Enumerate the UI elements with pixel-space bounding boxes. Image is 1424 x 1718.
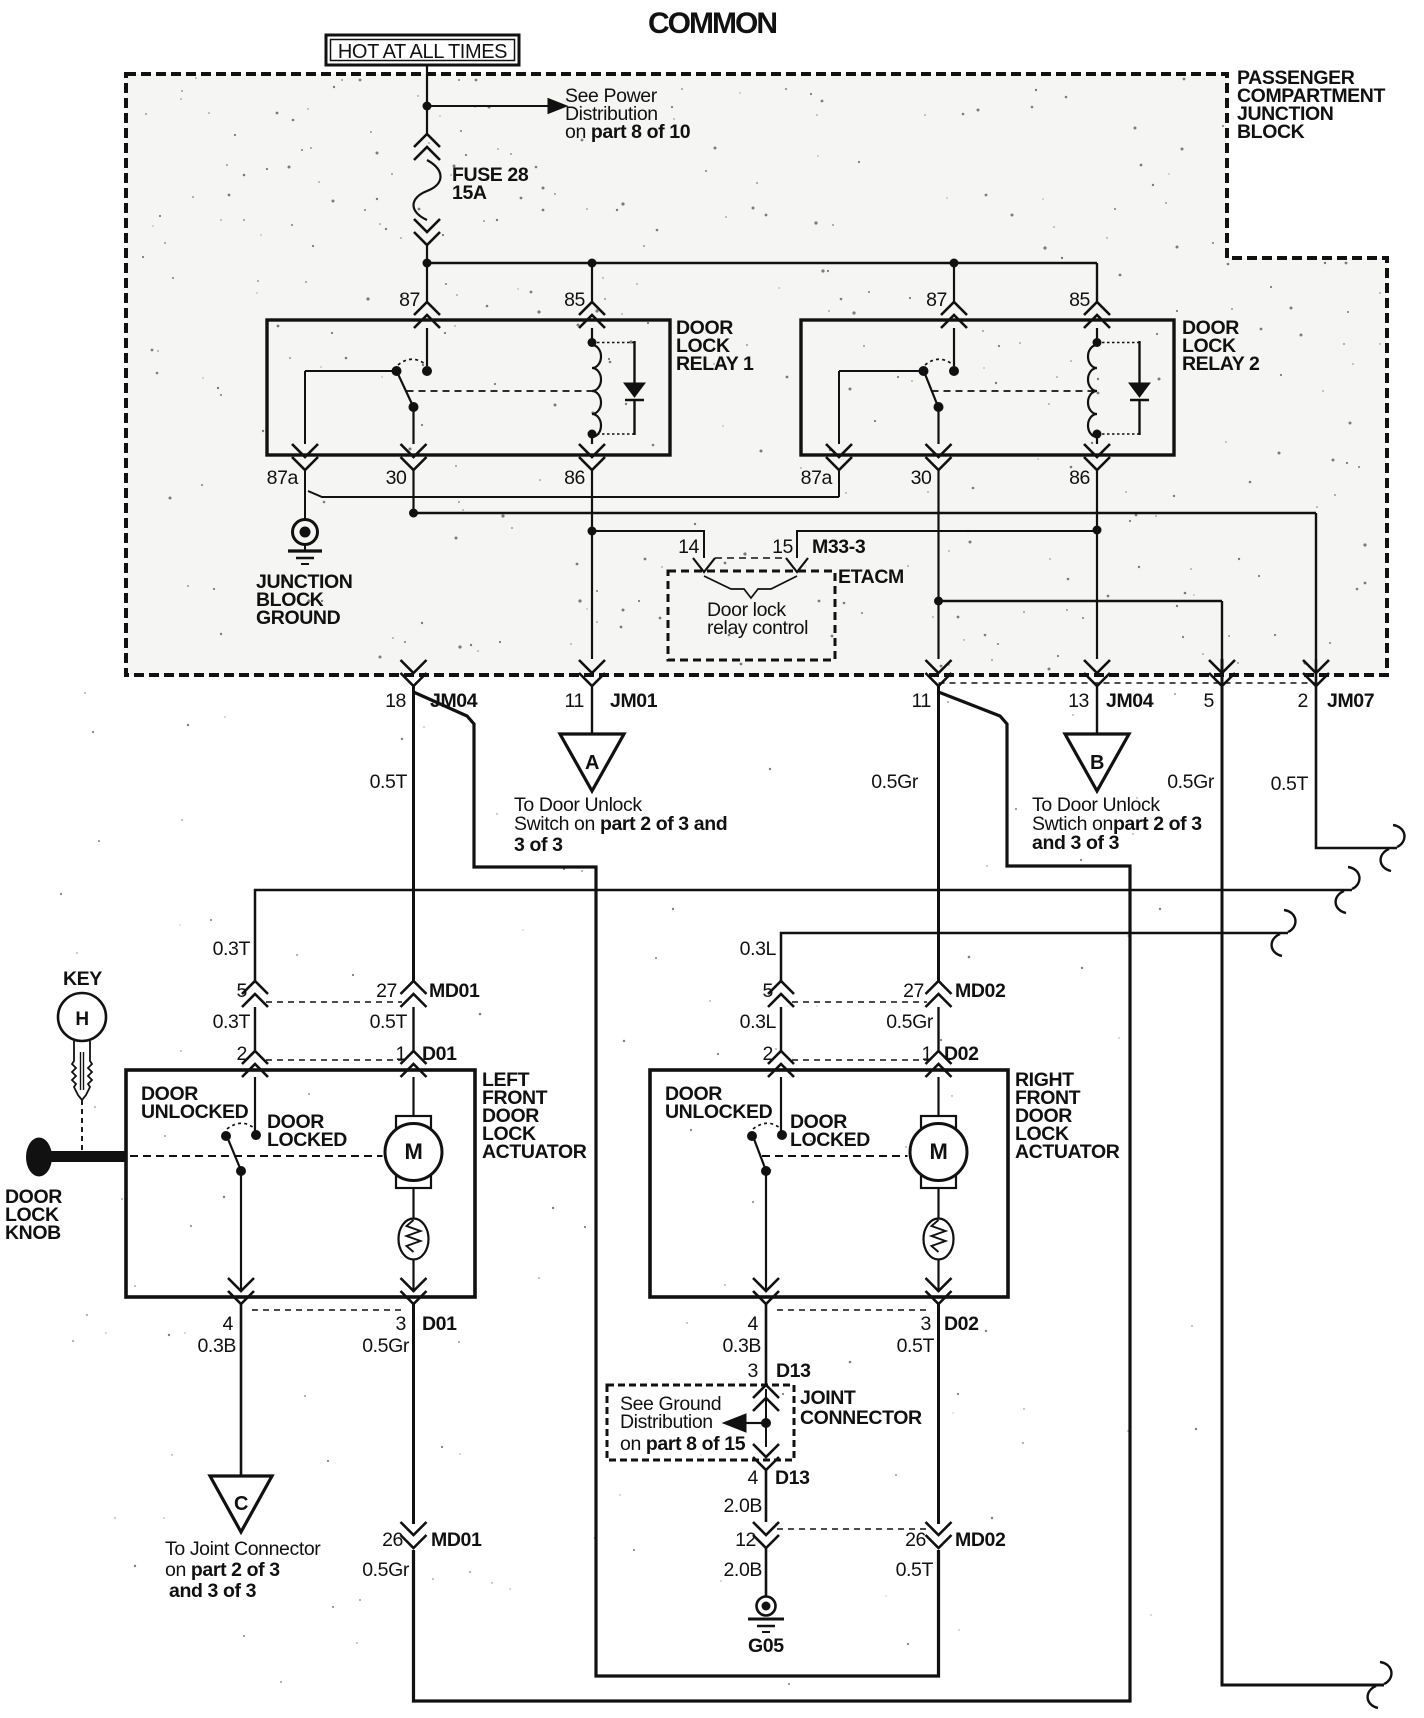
svg-text:0.5Gr: 0.5Gr	[362, 1559, 410, 1581]
svg-text:and 3 of 3: and 3 of 3	[1032, 832, 1120, 854]
svg-text:KEY: KEY	[63, 968, 102, 990]
svg-text:D01: D01	[422, 1043, 457, 1065]
svg-text:12: 12	[735, 1529, 756, 1551]
svg-text:3: 3	[748, 1360, 758, 1382]
svg-text:JM07: JM07	[1327, 690, 1374, 712]
svg-text:BLOCK: BLOCK	[1237, 121, 1305, 143]
svg-text:2.0B: 2.0B	[723, 1559, 762, 1581]
svg-text:86: 86	[1069, 467, 1090, 489]
svg-text:87: 87	[926, 289, 947, 311]
svg-text:27: 27	[376, 980, 397, 1002]
svg-text:0.5T: 0.5T	[896, 1559, 934, 1581]
svg-text:LOCKED: LOCKED	[267, 1129, 347, 1151]
svg-text:86: 86	[564, 467, 585, 489]
svg-text:To Joint Connector: To Joint Connector	[165, 1538, 321, 1560]
svg-text:0.5Gr: 0.5Gr	[1167, 771, 1215, 793]
svg-text:G05: G05	[748, 1635, 784, 1657]
svg-text:13: 13	[1068, 690, 1089, 712]
svg-text:26: 26	[905, 1529, 926, 1551]
svg-text:0.3B: 0.3B	[197, 1335, 236, 1357]
svg-text:on part 8 of 15: on part 8 of 15	[620, 1433, 746, 1455]
svg-text:0.5T: 0.5T	[370, 1011, 408, 1033]
svg-text:5: 5	[237, 980, 248, 1002]
svg-text:3: 3	[396, 1313, 406, 1335]
svg-text:85: 85	[564, 289, 585, 311]
svg-text:ACTUATOR: ACTUATOR	[482, 1141, 587, 1163]
svg-text:0.5T: 0.5T	[897, 1335, 935, 1357]
svg-text:MD01: MD01	[431, 1529, 482, 1551]
svg-text:D13: D13	[775, 1467, 810, 1489]
svg-text:0.5Gr: 0.5Gr	[362, 1335, 410, 1357]
svg-text:JOINT: JOINT	[800, 1387, 856, 1409]
svg-text:15: 15	[772, 536, 793, 558]
svg-text:18: 18	[385, 690, 406, 712]
svg-text:D13: D13	[776, 1360, 811, 1382]
svg-text:0.5T: 0.5T	[370, 771, 408, 793]
svg-text:87: 87	[399, 289, 420, 311]
svg-text:Distribution: Distribution	[620, 1411, 713, 1433]
svg-text:MD02: MD02	[955, 980, 1006, 1002]
svg-text:2: 2	[237, 1043, 247, 1065]
svg-text:RELAY 1: RELAY 1	[676, 353, 754, 375]
svg-text:0.3B: 0.3B	[722, 1335, 761, 1357]
svg-text:11: 11	[912, 690, 931, 712]
svg-text:MD01: MD01	[429, 980, 480, 1002]
svg-text:2: 2	[763, 1043, 773, 1065]
svg-text:0.3L: 0.3L	[740, 1011, 777, 1033]
svg-text:COMMON: COMMON	[648, 7, 776, 40]
svg-text:3 of 3: 3 of 3	[514, 834, 563, 856]
svg-text:UNLOCKED: UNLOCKED	[665, 1101, 773, 1123]
svg-text:26: 26	[382, 1529, 403, 1551]
svg-text:2.0B: 2.0B	[723, 1495, 762, 1517]
svg-text:ACTUATOR: ACTUATOR	[1015, 1141, 1120, 1163]
svg-text:0.3T: 0.3T	[213, 938, 251, 960]
svg-text:D02: D02	[944, 1043, 979, 1065]
svg-text:D02: D02	[944, 1313, 979, 1335]
svg-text:B: B	[1090, 752, 1104, 774]
svg-text:JM04: JM04	[1106, 690, 1154, 712]
svg-text:on part 2 of 3: on part 2 of 3	[165, 1559, 280, 1581]
svg-text:MD02: MD02	[955, 1529, 1006, 1551]
svg-text:M33-3: M33-3	[812, 536, 866, 558]
svg-text:5: 5	[763, 980, 774, 1002]
svg-text:0.5T: 0.5T	[1271, 773, 1309, 795]
svg-text:14: 14	[678, 536, 699, 558]
svg-text:85: 85	[1069, 289, 1090, 311]
svg-text:A: A	[585, 752, 599, 774]
svg-text:M: M	[405, 1139, 423, 1164]
svg-text:0.3T: 0.3T	[213, 1011, 251, 1033]
svg-text:relay control: relay control	[707, 617, 808, 639]
svg-text:M: M	[930, 1139, 948, 1164]
svg-text:ETACM: ETACM	[838, 566, 904, 588]
svg-text:Switch on part 2 of 3 and: Switch on part 2 of 3 and	[514, 813, 727, 835]
svg-text:KNOB: KNOB	[5, 1222, 61, 1244]
svg-text:87a: 87a	[267, 467, 299, 489]
svg-text:C: C	[234, 1493, 248, 1515]
svg-text:15A: 15A	[452, 182, 487, 204]
svg-text:1: 1	[396, 1043, 406, 1065]
svg-text:0.5Gr: 0.5Gr	[886, 1011, 934, 1033]
svg-text:0.5Gr: 0.5Gr	[871, 771, 919, 793]
svg-text:11: 11	[565, 690, 584, 712]
svg-text:on part 8 of 10: on part 8 of 10	[565, 121, 691, 143]
svg-text:30: 30	[386, 467, 407, 489]
svg-text:0.3L: 0.3L	[740, 938, 777, 960]
svg-text:UNLOCKED: UNLOCKED	[141, 1101, 249, 1123]
svg-text:H: H	[75, 1009, 88, 1030]
svg-text:HOT AT ALL TIMES: HOT AT ALL TIMES	[338, 41, 507, 63]
svg-text:4: 4	[223, 1313, 234, 1335]
svg-text:87a: 87a	[801, 467, 833, 489]
svg-text:30: 30	[911, 467, 932, 489]
svg-text:RELAY 2: RELAY 2	[1182, 353, 1260, 375]
svg-text:1: 1	[922, 1043, 932, 1065]
svg-text:and 3 of 3: and 3 of 3	[169, 1580, 257, 1602]
svg-text:27: 27	[903, 980, 924, 1002]
svg-text:4: 4	[748, 1313, 759, 1335]
svg-text:D01: D01	[422, 1313, 457, 1335]
svg-text:2: 2	[1298, 690, 1308, 712]
svg-text:CONNECTOR: CONNECTOR	[800, 1407, 922, 1429]
svg-text:JM01: JM01	[610, 690, 658, 712]
svg-text:3: 3	[921, 1313, 931, 1335]
svg-text:5: 5	[1204, 690, 1215, 712]
svg-text:LOCKED: LOCKED	[790, 1129, 870, 1151]
svg-text:GROUND: GROUND	[256, 607, 341, 629]
svg-text:4: 4	[748, 1467, 759, 1489]
